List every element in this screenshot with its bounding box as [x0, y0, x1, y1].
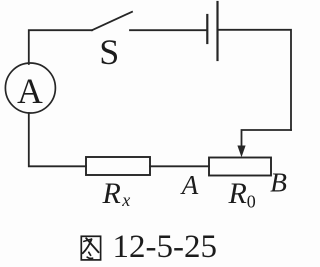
wire: ammeter top to switch pivot	[29, 30, 92, 64]
svg-text:S: S	[99, 32, 119, 72]
wire: to wiper	[242, 130, 292, 146]
caption character 图	[81, 236, 100, 260]
switch S blade	[92, 12, 132, 30]
svg-text:R: R	[228, 177, 247, 210]
wiper arrow head	[237, 146, 245, 158]
wire: battery to right side and down	[219, 30, 292, 130]
svg-text:A: A	[17, 71, 43, 111]
svg-text:0: 0	[247, 192, 256, 212]
wire: switch contact to battery	[130, 29, 207, 31]
svg-text:x: x	[121, 190, 130, 210]
battery short plate (negative)	[206, 15, 208, 43]
resistor Rx box	[86, 157, 150, 175]
wire: Rx to ammeter bottom	[29, 113, 86, 166]
svg-text:R: R	[102, 177, 121, 210]
rheostat R0 box	[209, 158, 271, 176]
battery long plate (positive)	[216, 2, 218, 60]
wire: R0 to Rx	[150, 165, 209, 167]
svg-text:B: B	[270, 167, 287, 198]
ammeter circle	[5, 63, 55, 113]
svg-text:A: A	[180, 170, 199, 200]
svg-text:12-5-25: 12-5-25	[113, 229, 217, 265]
